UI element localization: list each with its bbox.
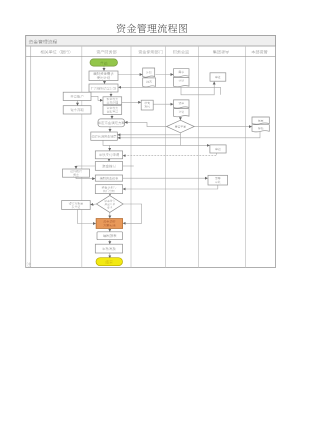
box WB 组织实施资金调度	[91, 132, 118, 140]
wire DIA4->WB	[118, 133, 181, 135]
label L4 docs1	[179, 71, 184, 74]
label S2	[107, 107, 118, 110]
header L5 集团领导	[213, 50, 229, 54]
chart outer frame	[26, 36, 276, 268]
wire S1->L3B	[122, 101, 141, 103]
label L3 docs	[146, 71, 151, 74]
box S2 资金收支台账登记	[103, 106, 122, 115]
box BF 资金拨付	[95, 162, 122, 171]
label P2	[215, 148, 221, 151]
label 结束	[105, 260, 112, 263]
label P3	[215, 177, 220, 180]
label S1	[107, 98, 118, 101]
wire boxA->S1	[91, 96, 103, 100]
label P1	[215, 76, 221, 79]
wire L3docs->L4docs	[156, 74, 174, 76]
wire SH->BF	[108, 159, 110, 161]
wire S2->RB	[111, 114, 113, 118]
box P2 审批	[210, 145, 226, 153]
wire BF->C1	[76, 166, 95, 169]
wire P2->SH dashed	[123, 153, 217, 156]
label orange	[103, 220, 115, 223]
wire DIA4->row147	[180, 135, 209, 146]
label BF	[102, 165, 115, 168]
L3 box 收支复核	[141, 100, 153, 110]
label DIA4	[175, 125, 186, 128]
wire L3B->L4docs2	[153, 103, 173, 105]
wire BF right stub	[123, 165, 134, 167]
left narrow strip	[30, 46, 32, 268]
box B5 资金计划与执行分析	[95, 185, 122, 194]
wire S1->S2	[111, 104, 113, 107]
wire junction->B2	[119, 87, 221, 95]
label boxB	[70, 108, 83, 111]
box P1 审批	[210, 73, 226, 81]
label L6 docs	[258, 119, 263, 122]
label L4 docs2	[179, 102, 184, 105]
wire DIA4->L6docs	[194, 126, 251, 128]
title 资金管理流程图	[117, 24, 187, 33]
label C2	[69, 202, 83, 205]
label B7	[103, 247, 116, 250]
label B6	[103, 234, 116, 237]
label 开始	[100, 61, 107, 65]
title band 资金管理流程	[26, 36, 276, 47]
wire start->B1	[103, 66, 105, 70]
wire D2->OR right loop	[123, 204, 142, 223]
box C1 银行拨付资金	[63, 169, 90, 177]
lane line 2/3	[130, 46, 132, 268]
box B2 汇总编制资金计划	[89, 84, 118, 92]
wire row147->SH	[110, 145, 181, 150]
strip bottom mark	[27, 262, 31, 266]
header row bottom line	[26, 56, 276, 58]
wire OR->B6	[109, 229, 111, 232]
box B7 审核发放	[95, 244, 122, 253]
wire L6docs->WB	[118, 132, 260, 138]
label WB	[92, 135, 116, 138]
label B1	[93, 72, 113, 75]
lane line 1/2	[81, 46, 83, 268]
box C2 银行对账单及凭证	[62, 201, 90, 210]
label RB	[98, 121, 125, 124]
wire WB->row145	[103, 140, 110, 145]
header L1 相关单位（银行）	[41, 50, 71, 54]
wire L4docs->P1 junction	[181, 82, 214, 95]
label L3 box	[145, 102, 150, 105]
rounded box RB 资金调度方案	[98, 119, 125, 127]
box P3 领导审批	[208, 175, 228, 185]
label C1	[70, 170, 81, 173]
header L4 财务总监	[173, 50, 189, 54]
header L6 本部资管	[252, 50, 268, 54]
box A 开立账户 (bank)	[63, 92, 91, 100]
end 结束 yellow	[96, 258, 123, 266]
lane line 5/6	[245, 46, 247, 268]
label D2	[105, 200, 116, 202]
box B6 编制报表	[97, 232, 123, 240]
L4 document stack 2	[174, 100, 190, 108]
L3 document stack 计划报表	[143, 68, 155, 77]
label B4	[100, 177, 118, 180]
box Bb 资金存取 (bank)	[63, 106, 91, 114]
wire C2->OR	[78, 210, 96, 224]
wire B1->B2	[104, 81, 106, 84]
wire D2->OR	[109, 212, 111, 218]
label SH	[99, 153, 119, 156]
wire D2->C2	[91, 203, 97, 206]
box S1 现金收支业务处理	[103, 97, 122, 105]
wire C1->B4	[76, 177, 95, 178]
wire B5->D2	[109, 194, 111, 196]
wire B2->S1	[110, 92, 112, 96]
L6 document stack 备案	[252, 117, 269, 124]
box B4 编制资金报表	[95, 175, 122, 181]
wire boxA->boxB	[77, 101, 79, 106]
label B5	[102, 186, 116, 189]
wire B7->END	[109, 253, 111, 258]
header L2 资产财务部	[96, 50, 116, 54]
wire P3->B5	[123, 185, 218, 189]
diamond D2 是否符合资金计划	[97, 196, 124, 213]
lane line 4/5	[198, 46, 200, 268]
box B1 编制资金需求计划	[89, 71, 118, 81]
wire DIA4->RB	[125, 122, 167, 126]
start 开始	[90, 59, 118, 66]
diamond DIA4 是否平衡	[167, 120, 195, 133]
L4 document stack 1	[174, 69, 190, 77]
wire L4docs2->DIA4	[179, 117, 181, 120]
label B2	[91, 87, 116, 90]
lane line 3/4	[165, 46, 167, 268]
orange box 资金调整方案实施	[96, 219, 123, 229]
wire B4->P3	[123, 177, 208, 179]
wire RB->WB	[109, 127, 111, 132]
wire B6->B7	[109, 240, 111, 244]
wire B1->L3docs	[118, 74, 142, 76]
box SH 审核支付申请	[95, 151, 122, 159]
header L3 资金使用部门	[138, 50, 162, 54]
label boxA	[71, 95, 84, 98]
